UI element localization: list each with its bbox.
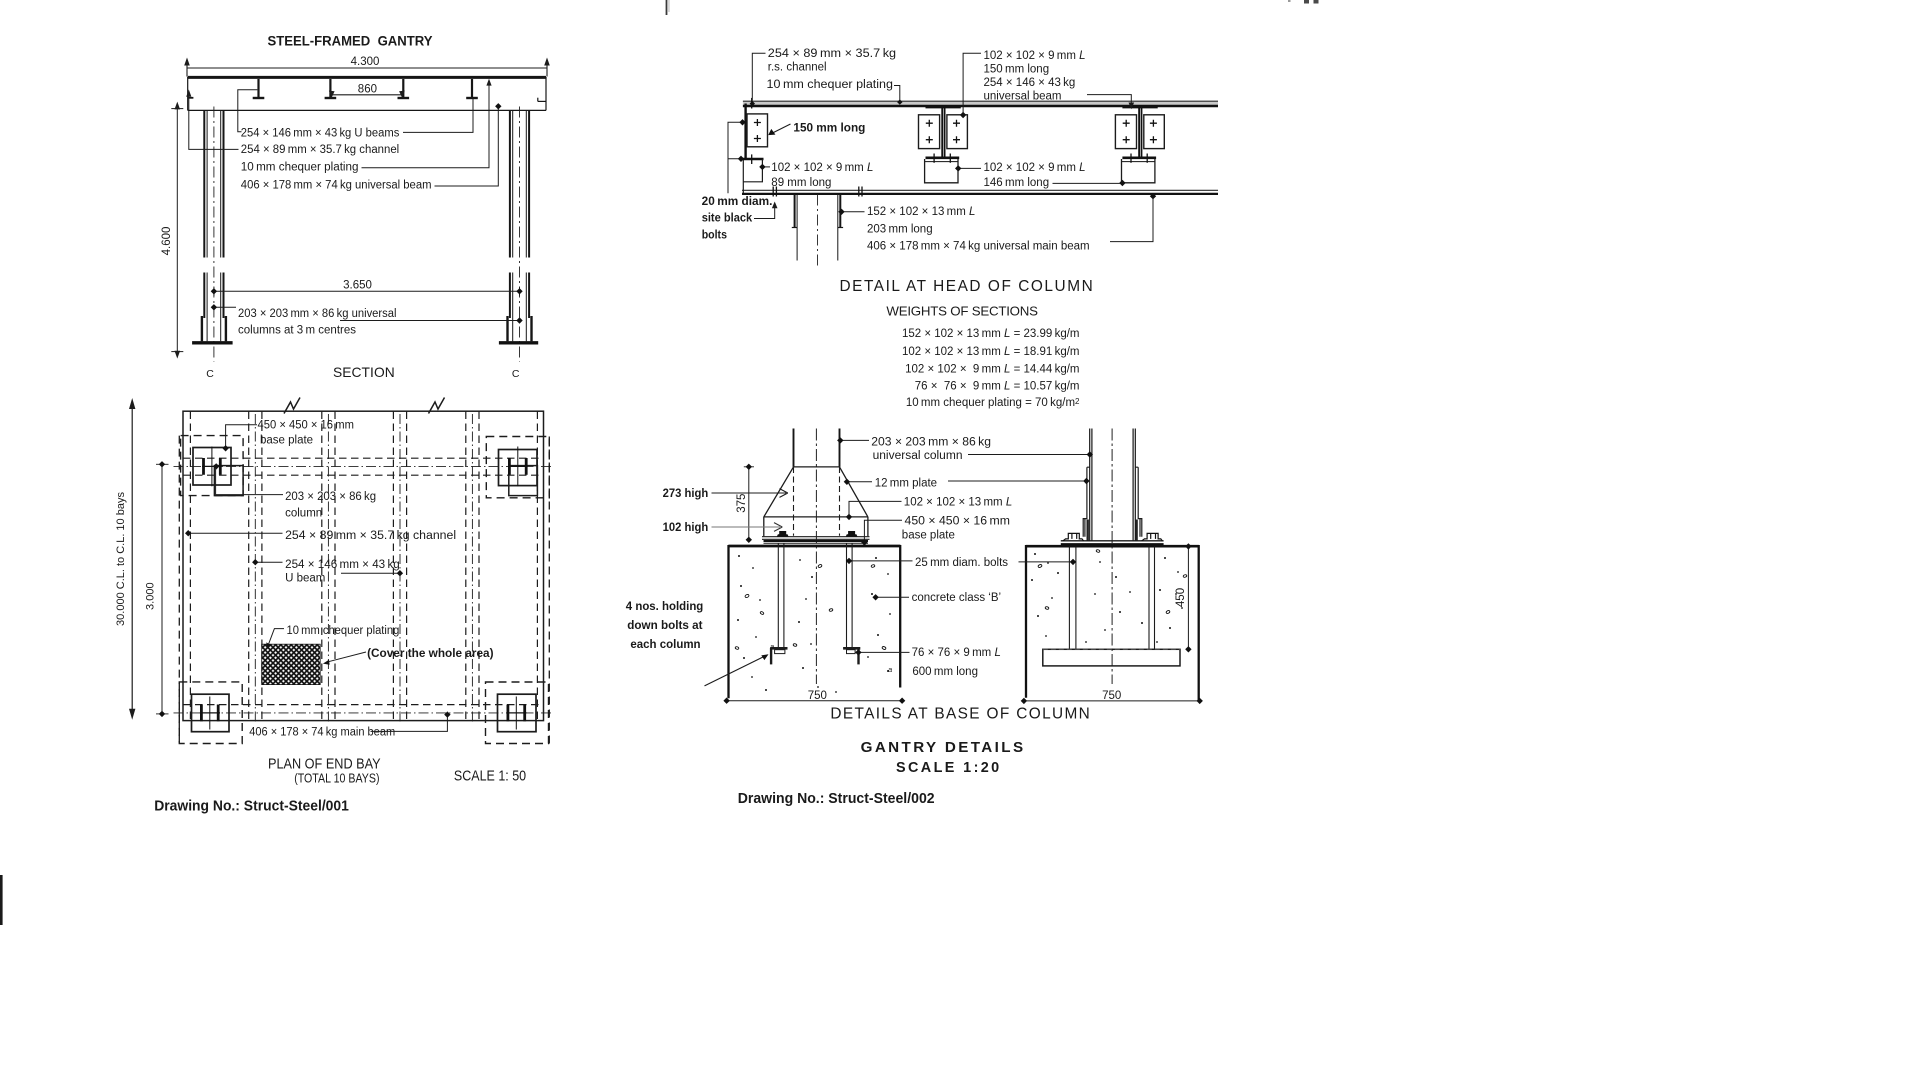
- svg-text:SECTION: SECTION: [333, 365, 395, 380]
- dimension 750 front: [727, 700, 903, 702]
- svg-text:concrete class ‘B’: concrete class ‘B’: [912, 592, 1001, 604]
- svg-text:down bolts at: down bolts at: [627, 620, 702, 632]
- svg-text:450 × 450 × 16 mm: 450 × 450 × 16 mm: [258, 419, 355, 431]
- column web edges side: [1090, 429, 1136, 541]
- 12mm plates side left: [1083, 467, 1090, 537]
- break mark 2 on top edge: [429, 398, 445, 414]
- left column centreline: [213, 107, 215, 362]
- bolt tick through left cleat: [751, 154, 753, 164]
- svg-text:SCALE 1: 50: SCALE 1: 50: [454, 769, 526, 785]
- svg-text:254 × 146 mm × 43 kg: 254 × 146 mm × 43 kg: [285, 559, 400, 571]
- U beam section T4: [471, 79, 473, 97]
- svg-text:203 × 203 × 86 kg: 203 × 203 × 86 kg: [285, 491, 376, 503]
- svg-text:203 × 203 mm × 86 kg: 203 × 203 mm × 86 kg: [871, 436, 991, 448]
- base plate front: [762, 536, 870, 538]
- svg-text:12 mm plate: 12 mm plate: [875, 478, 937, 490]
- TL base plate solid square: [193, 448, 231, 486]
- svg-text:3.000: 3.000: [145, 582, 157, 610]
- top beam deck (chequer plate over channels): [188, 77, 546, 110]
- BR base plate solid square: [498, 694, 537, 732]
- svg-text:C: C: [512, 368, 520, 380]
- concrete speckles side: [1031, 553, 1183, 643]
- svg-text:each column: each column: [630, 639, 700, 651]
- dimension 750 side: [1024, 700, 1200, 702]
- left cleat 102x102x9 L 89mm: [743, 158, 764, 161]
- middle T stiffener and plates: [925, 107, 961, 162]
- svg-text:C: C: [206, 368, 214, 380]
- middle cleat 102x102x9 L 146mm: [925, 159, 958, 183]
- right T stiffener and plates: [1122, 107, 1158, 162]
- dimension 3.650: [214, 290, 520, 292]
- svg-text:10 mm chequer plating: 10 mm chequer plating: [767, 79, 894, 91]
- svg-text:750: 750: [1102, 690, 1121, 702]
- BR column I-section: [506, 697, 526, 730]
- dimension 30.000 C.L. to C.L.: [131, 404, 133, 715]
- BL column I-section: [200, 697, 220, 730]
- svg-text:Drawing No.: Struct-Steel/002: Drawing No.: Struct-Steel/002: [738, 791, 935, 807]
- TR offset plate square: [509, 466, 538, 496]
- svg-text:406 × 178 × 74 kg main beam: 406 × 178 × 74 kg main beam: [249, 726, 395, 738]
- bolt crosses right plates: [1123, 120, 1157, 144]
- svg-text:150 mm long: 150 mm long: [793, 122, 865, 134]
- dimension 4.300 line: [187, 60, 547, 77]
- U beam 3 plan: [392, 412, 394, 721]
- right cleat: [1122, 159, 1155, 183]
- svg-text:860: 860: [358, 83, 377, 95]
- svg-text:10 mm chequer plating: 10 mm chequer plating: [241, 162, 359, 174]
- svg-text:STEEL-FRAMED GANTRY: STEEL-FRAMED GANTRY: [268, 34, 433, 49]
- svg-text:column: column: [285, 507, 322, 519]
- svg-text:146 mm long: 146 mm long: [984, 177, 1050, 189]
- svg-text:universal column: universal column: [873, 450, 963, 462]
- svg-text:203 mm long: 203 mm long: [867, 223, 933, 235]
- holding bolt heads on plate: [777, 531, 789, 537]
- svg-text:750: 750: [808, 690, 827, 702]
- beam bottom flange lines: [742, 189, 1218, 191]
- concrete block front: [729, 546, 901, 698]
- base plate side: [1061, 540, 1164, 542]
- svg-text:universal beam: universal beam: [984, 91, 1062, 103]
- svg-text:base plate: base plate: [260, 434, 313, 446]
- dimension 375: [748, 467, 750, 540]
- concrete speckles front: [737, 555, 891, 693]
- svg-text:254 × 89 mm × 35.7 kg channel: 254 × 89 mm × 35.7 kg channel: [241, 144, 399, 156]
- dimension 3.000: [161, 464, 163, 714]
- svg-text:10 mm chequer plating: 10 mm chequer plating: [287, 625, 400, 637]
- BL base plate dashed square: [179, 682, 242, 744]
- svg-text:WEIGHTS OF SECTIONS: WEIGHTS OF SECTIONS: [886, 304, 1038, 319]
- bolt ticks right cleat: [1130, 154, 1132, 163]
- svg-text:152 × 102 × 13 mm L: 152 × 102 × 13 mm L: [867, 206, 975, 218]
- svg-text:columns at 3 m centres: columns at 3 m centres: [238, 324, 356, 336]
- bolt tick through plating at left plate: [751, 98, 753, 109]
- holding down bolt right: [843, 543, 860, 664]
- svg-text:r.s. channel: r.s. channel: [768, 62, 827, 74]
- grid centreline 2: [174, 712, 554, 714]
- svg-text:(TOTAL 10 BAYS): (TOTAL 10 BAYS): [294, 771, 379, 786]
- U beam section T1: [188, 79, 546, 101]
- svg-text:150 mm long: 150 mm long: [984, 64, 1050, 76]
- TR base plate solid square: [499, 450, 538, 486]
- svg-text:203 × 203 mm × 86 kg universal: 203 × 203 mm × 86 kg universal: [238, 308, 397, 320]
- BR base plate dashed square: [486, 682, 549, 744]
- svg-text:102 × 102 × 9 mm L: 102 × 102 × 9 mm L: [771, 162, 873, 174]
- 12mm plates side right: [1135, 467, 1142, 537]
- dimension 860 between T2 and T3: [330, 94, 403, 96]
- svg-text:375: 375: [736, 494, 748, 513]
- anchor plate 600mm long side: [1043, 649, 1180, 666]
- svg-text:102 high: 102 high: [663, 522, 709, 534]
- U beam section T2: [329, 79, 331, 97]
- svg-text:76 × 76 × 9 mm L: 76 × 76 × 9 mm L: [912, 647, 1001, 659]
- right column base plate: [499, 341, 538, 344]
- bolt ticks middle cleat: [933, 154, 935, 163]
- svg-text:450 × 450 × 16 mm: 450 × 450 × 16 mm: [905, 516, 1011, 528]
- svg-text:a: a: [888, 665, 892, 674]
- dimension 4.600 vertical: [171, 109, 183, 352]
- holding down bolt left: [770, 543, 787, 664]
- svg-text:102 × 102 × 9 mm L: 102 × 102 × 9 mm L: [984, 162, 1086, 174]
- main beam flange dashed lines grid line 1: [183, 457, 544, 459]
- svg-text:273 high: 273 high: [663, 488, 709, 500]
- BL base plate solid square: [192, 694, 230, 732]
- U beam 2 plan: [321, 412, 323, 721]
- svg-text:Drawing No.: Struct-Steel/001: Drawing No.: Struct-Steel/001: [154, 799, 349, 815]
- TL base plate dashed square: [181, 436, 244, 496]
- svg-text:102 × 102 × 13 mm L: 102 × 102 × 13 mm L: [904, 497, 1012, 509]
- svg-text:DETAIL AT HEAD OF COLUMN: DETAIL AT HEAD OF COLUMN: [840, 278, 1093, 295]
- svg-text:4.300: 4.300: [351, 56, 380, 68]
- bolt crosses left plate: [754, 119, 761, 142]
- svg-text:(Cover the whole area): (Cover the whole area): [367, 648, 494, 660]
- scan artifact: top right small blobs: [1304, 0, 1309, 4]
- foundation dashed line left: [178, 436, 180, 744]
- svg-text:450: 450: [1175, 588, 1187, 607]
- hidden column flanges dashed: [793, 467, 795, 536]
- gusset trapezoid 12mm plates: [764, 467, 868, 536]
- U beam section T3: [402, 79, 404, 97]
- svg-text:10 mm chequer plating = 70 kg/: 10 mm chequer plating = 70 kg/m2: [906, 396, 1080, 408]
- 12mm plate dark bundle side: [1086, 520, 1088, 541]
- bolt crosses middle plates: [926, 120, 960, 144]
- scan artifact: left edge black bar: [0, 875, 3, 925]
- svg-text:254 × 89 mm × 35.7 kg: 254 × 89 mm × 35.7 kg: [768, 48, 896, 60]
- cut channel mark right edge: [537, 98, 539, 102]
- svg-text:254 × 89 mm × 35.7 kg channel: 254 × 89 mm × 35.7 kg channel: [285, 530, 456, 542]
- svg-text:254 × 146 × 43 kg: 254 × 146 × 43 kg: [984, 77, 1076, 89]
- left column base plate: [192, 341, 233, 344]
- svg-text:U beam: U beam: [285, 573, 325, 585]
- svg-text:152 × 102 × 13 mm L = 23.99 kg: 152 × 102 × 13 mm L = 23.99 kg/m: [902, 328, 1080, 340]
- chequer plating band: [743, 101, 1218, 107]
- column centreline side: [1111, 429, 1113, 685]
- right column centreline: [519, 107, 521, 362]
- svg-text:102 × 102 × 9 mm L: 102 × 102 × 9 mm L: [984, 50, 1086, 62]
- svg-text:GANTRY DETAILS: GANTRY DETAILS: [861, 739, 1024, 756]
- holding bolts side: [1069, 546, 1154, 649]
- main beam centreline: [817, 195, 819, 269]
- concrete block side: [1026, 546, 1199, 700]
- bolt heads side: [1063, 533, 1163, 541]
- svg-text:102 × 102 × 13 mm L = 18.91 kg: 102 × 102 × 13 mm L = 18.91 kg/m: [902, 346, 1080, 358]
- svg-text:site black: site black: [702, 213, 753, 225]
- svg-text:SCALE 1:20: SCALE 1:20: [896, 760, 999, 776]
- svg-text:a: a: [770, 642, 774, 651]
- svg-text:3.650: 3.650: [343, 279, 372, 291]
- right column (203x203 UC): [508, 111, 532, 341]
- svg-text:76 × 76 × 9 mm L = 10.57 kg/: 76 × 76 × 9 mm L = 10.57 kg/m: [915, 381, 1080, 393]
- main beam flange dashed line grid line 2: [183, 704, 544, 706]
- column centreline front: [815, 429, 817, 685]
- svg-text:254 × 146 mm × 43 kg U beams: 254 × 146 mm × 43 kg U beams: [241, 128, 400, 140]
- TL column I-section: [202, 447, 222, 487]
- svg-text:20 mm diam.: 20 mm diam.: [702, 196, 773, 208]
- svg-text:30.000 C.L. to C.L. 10 bays: 30.000 C.L. to C.L. 10 bays: [115, 492, 127, 626]
- grid centreline 1: [174, 465, 554, 467]
- left column (203x203 UC): [202, 111, 226, 341]
- svg-text:89 mm long: 89 mm long: [771, 177, 831, 189]
- foundation dashed line right: [548, 437, 550, 744]
- svg-text:406 × 178 mm × 74 kg universal: 406 × 178 mm × 74 kg universal main beam: [867, 241, 1090, 253]
- TR column I-section: [508, 447, 528, 487]
- svg-text:4 nos. holding: 4 nos. holding: [626, 601, 704, 613]
- svg-text:102 × 102 × 9 mm L = 14.44 kg: 102 × 102 × 9 mm L = 14.44 kg/m: [905, 364, 1079, 376]
- svg-text:25 mm diam. bolts: 25 mm diam. bolts: [915, 557, 1008, 569]
- svg-text:4.600: 4.600: [161, 227, 173, 256]
- edge channel dashed line left: [189, 412, 191, 721]
- cut channel mark left edge: [188, 97, 194, 99]
- svg-text:600 mm long: 600 mm long: [912, 666, 978, 678]
- slab outline solid rectangle: [183, 411, 544, 720]
- main beam web below (406x178 UB): [792, 195, 843, 261]
- leader bracket 20mm bolts: [728, 122, 742, 193]
- svg-text:bolts: bolts: [702, 229, 727, 241]
- beam left end plate: [744, 104, 746, 159]
- chequer plating hatched sample: [262, 644, 321, 684]
- edge channel dashed line right: [536, 412, 538, 721]
- TL offset plate square: [214, 466, 243, 496]
- dimension 450: [1187, 546, 1189, 649]
- site bolts ticks through bottom flange: [773, 187, 862, 197]
- U beam 1 plan (flange dashed lines + centreline): [249, 412, 479, 723]
- scan artifact: top tick mark: [666, 0, 668, 15]
- svg-text:406 × 178 mm × 74 kg universal: 406 × 178 mm × 74 kg universal beam: [241, 180, 432, 192]
- left bolted plate (150mm long): [747, 114, 768, 147]
- column flanges: [793, 429, 795, 467]
- U beam 4 plan: [465, 412, 467, 721]
- svg-text:base plate: base plate: [902, 530, 955, 542]
- break mark 1 on top edge: [284, 398, 300, 414]
- TR base plate dashed square: [486, 437, 549, 498]
